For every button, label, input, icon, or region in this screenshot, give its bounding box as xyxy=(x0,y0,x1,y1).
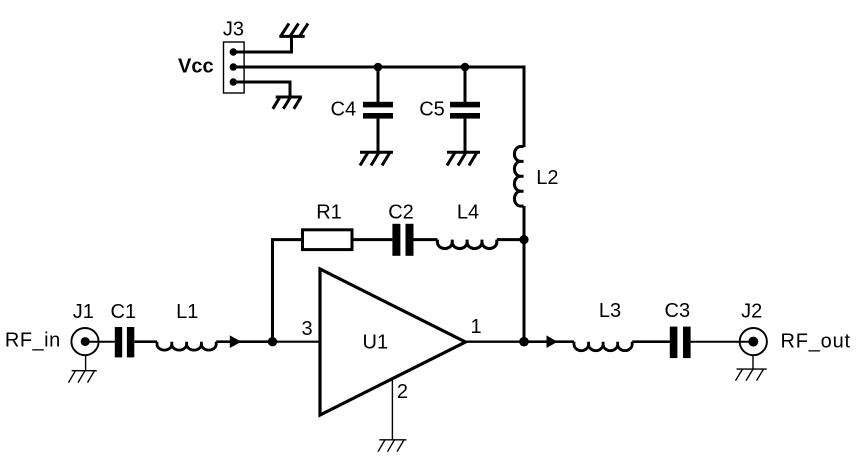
capacitor C2 xyxy=(392,224,413,256)
wire L4 to feedback node xyxy=(497,238,524,241)
node output junction xyxy=(519,337,529,347)
arrow output xyxy=(547,335,558,348)
wire U1 output to node xyxy=(466,341,525,343)
svg-text:2: 2 xyxy=(397,381,408,403)
wire feedback left vertical xyxy=(273,240,303,342)
svg-text:3: 3 xyxy=(301,318,312,340)
node at C4 tap xyxy=(374,63,383,72)
wire Vcc net (J3 pin 2 to L2 top) xyxy=(233,67,524,147)
svg-text:C3: C3 xyxy=(665,300,691,322)
ground (C5) xyxy=(447,152,480,165)
svg-text:J2: J2 xyxy=(741,300,762,322)
svg-text:1: 1 xyxy=(470,316,481,338)
ground (J2) xyxy=(736,369,767,381)
ground (J1) xyxy=(69,371,97,383)
wire feedback node to output node xyxy=(523,240,526,342)
node input (pin 3 tap) xyxy=(268,337,277,346)
connector J2 xyxy=(740,328,767,369)
ground (J3 pin 1, up-style) xyxy=(279,23,308,36)
svg-text:J3: J3 xyxy=(223,18,244,40)
resistor R1 xyxy=(303,230,353,250)
node at C5 tap xyxy=(461,63,470,72)
inductor L4 xyxy=(437,240,496,249)
wire C2 to L4 xyxy=(413,238,437,241)
svg-text:R1: R1 xyxy=(316,202,342,224)
arrow input xyxy=(230,335,242,348)
svg-text:U1: U1 xyxy=(363,332,389,354)
ground (J3 pin 3) xyxy=(273,97,302,109)
wire J3 pin 1 to ground xyxy=(233,35,291,52)
svg-text:C2: C2 xyxy=(388,201,414,223)
svg-text:RF_in: RF_in xyxy=(5,330,61,352)
op-amp U1 xyxy=(320,269,466,415)
svg-text:C5: C5 xyxy=(419,99,445,121)
capacitor C4 xyxy=(363,67,393,151)
ground (C4) xyxy=(360,152,393,165)
svg-text:L2: L2 xyxy=(536,167,558,189)
wire L1 to input node xyxy=(216,340,272,343)
inductor L2 xyxy=(514,147,523,207)
svg-text:J1: J1 xyxy=(73,301,94,323)
wire J3 pin 3 to ground xyxy=(233,82,290,96)
connector J1 xyxy=(71,328,98,370)
svg-text:C1: C1 xyxy=(111,301,137,323)
ground (U1 pin 2) xyxy=(378,440,406,452)
capacitor C3 xyxy=(670,327,691,359)
node feedback junction xyxy=(519,235,528,244)
wire L3 to C3 xyxy=(632,340,670,343)
capacitor C5 xyxy=(450,67,480,151)
wire U1 pin 2 xyxy=(391,379,393,439)
svg-text:RF_out: RF_out xyxy=(781,331,851,353)
inductor L3 xyxy=(574,342,632,351)
wire R1 to C2 xyxy=(352,238,392,241)
svg-text:L4: L4 xyxy=(457,202,479,224)
svg-text:C4: C4 xyxy=(331,99,357,121)
wire node to L3 xyxy=(524,340,574,343)
wire C3 to J2 xyxy=(691,341,754,343)
svg-text:Vcc: Vcc xyxy=(178,56,214,78)
svg-text:L1: L1 xyxy=(176,301,198,323)
wire node to U1 pin 3 xyxy=(273,341,321,343)
capacitor C1 xyxy=(115,327,135,357)
svg-text:L3: L3 xyxy=(599,300,621,322)
connector J3 xyxy=(224,42,245,93)
inductor L1 xyxy=(157,342,216,350)
wire J1 to C1 xyxy=(85,341,115,343)
wire L2 bottom to feedback node xyxy=(523,206,526,240)
wire C1 to L1 xyxy=(134,340,157,343)
